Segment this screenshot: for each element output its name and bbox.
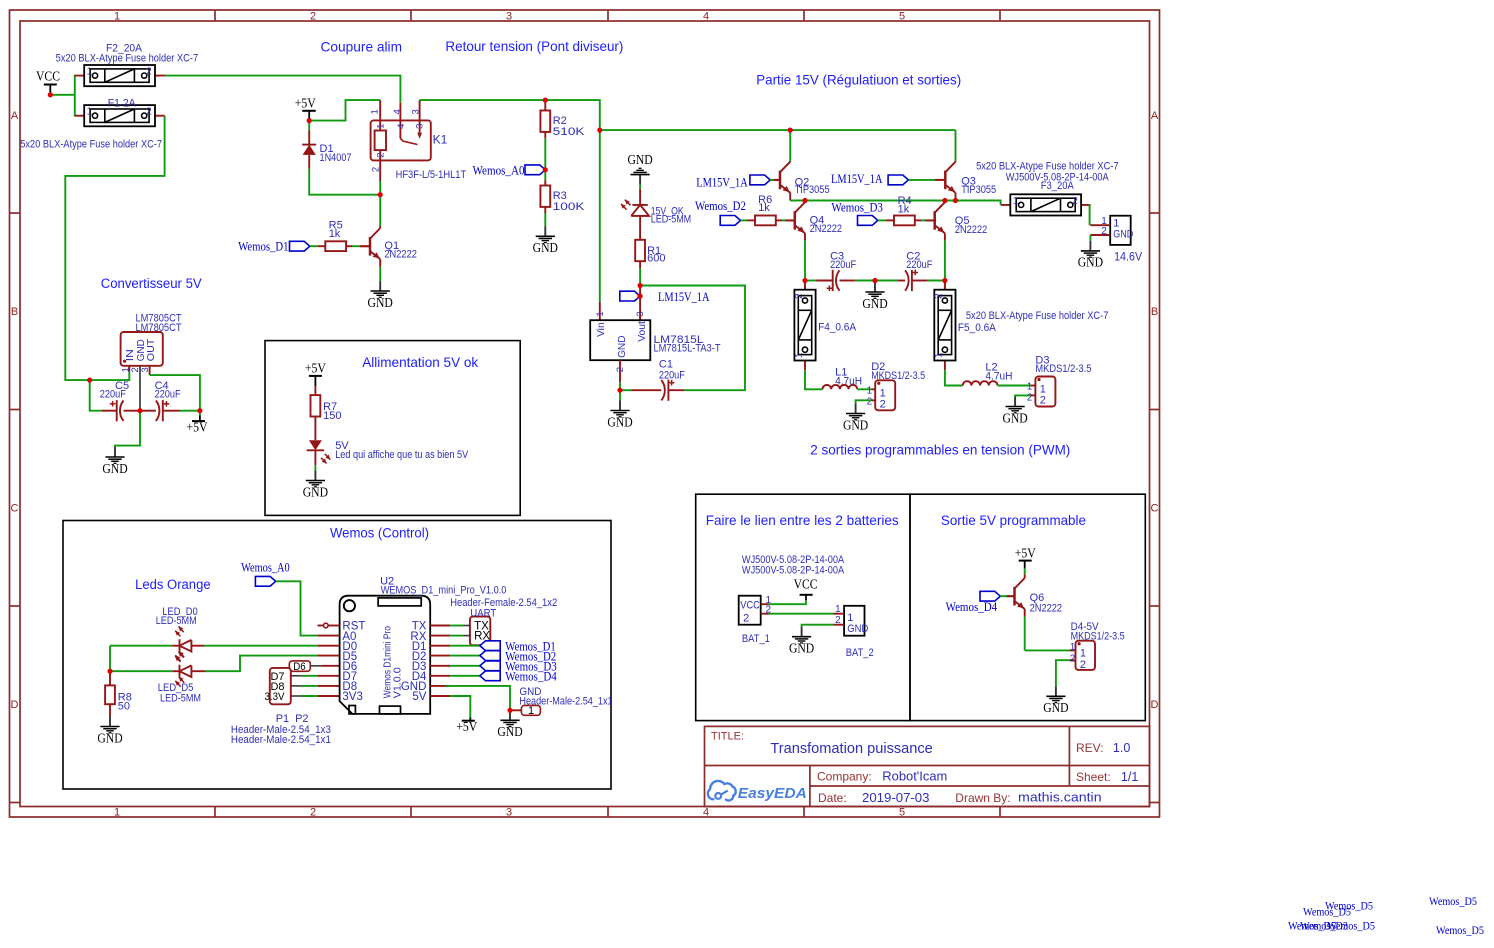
wire R2 to R3	[544, 138, 546, 180]
svg-text:MKDS1/2-3.5: MKDS1/2-3.5	[1071, 631, 1125, 643]
svg-text:Drawn By:: Drawn By:	[955, 791, 1010, 805]
svg-text:1: 1	[370, 109, 381, 114]
svg-text:1/1: 1/1	[1121, 770, 1138, 784]
port Wemos_D3	[831, 200, 886, 225]
power +5V converter output	[187, 411, 208, 435]
power +5V wemos	[456, 718, 477, 735]
svg-text:GND: GND	[533, 240, 558, 255]
module U2 WEMOS D1 mini Pro	[318, 575, 507, 714]
svg-text:5: 5	[899, 806, 905, 818]
svg-text:D: D	[1151, 699, 1159, 711]
svg-text:4: 4	[703, 806, 709, 818]
junction Q2 collector	[788, 128, 793, 133]
transistor Q5 2N2222	[925, 201, 987, 282]
svg-text:1: 1	[87, 107, 93, 118]
power VCC batteries	[794, 577, 818, 600]
header GND Header-Male-2.54_1x1	[510, 686, 613, 717]
comment Retour tension (Pont diviseur)	[445, 39, 623, 54]
fuse F4 0.6A	[794, 280, 857, 370]
sheet border frame	[10, 10, 1160, 818]
svg-text:GND: GND	[303, 484, 328, 499]
svg-text:HF3F-L/5-1HL1T: HF3F-L/5-1HL1T	[396, 169, 467, 181]
capacitor C5 220uF	[100, 380, 140, 421]
svg-text:1: 1	[595, 311, 606, 316]
ground R3	[533, 226, 558, 255]
transistor Q1 2N2222	[361, 226, 417, 281]
section box Faire le lien entre les 2 batteries	[696, 494, 910, 720]
wire D2 pin2 gnd	[856, 400, 872, 403]
svg-text:2: 2	[1070, 654, 1076, 665]
svg-text:2: 2	[310, 10, 316, 22]
svg-text:1: 1	[114, 806, 120, 818]
section box Sortie 5V programmable	[910, 494, 1145, 720]
svg-text:A: A	[1151, 110, 1159, 122]
ground Q1 emitter	[368, 281, 393, 310]
svg-text:Wemos (Control): Wemos (Control)	[330, 525, 429, 540]
port Wemos_D4 out	[480, 670, 557, 684]
svg-text:1: 1	[1080, 647, 1086, 659]
svg-text:F4_0.6A: F4_0.6A	[818, 322, 857, 334]
port Wemos_D1	[238, 239, 318, 253]
svg-text:Wemos_D5: Wemos_D5	[1436, 925, 1484, 937]
svg-text:Faire le lien entre les 2 batt: Faire le lien entre les 2 batteries	[706, 513, 899, 528]
port Wemos_D3 out	[480, 660, 557, 674]
svg-text:GND: GND	[1113, 228, 1133, 240]
svg-text:Header-Male-2.54_1x1: Header-Male-2.54_1x1	[231, 734, 331, 746]
regulator LM7805CT	[121, 313, 182, 411]
svg-text:EasyEDA: EasyEDA	[738, 786, 807, 802]
capacitor C1 220uF	[620, 359, 685, 401]
svg-text:WEMOS_D1_mini_Pro_V1.0.0: WEMOS_D1_mini_Pro_V1.0.0	[381, 584, 507, 596]
svg-text:BAT_1: BAT_1	[742, 633, 770, 645]
resistor R1 600	[635, 240, 665, 283]
svg-text:LM15V_1A: LM15V_1A	[696, 175, 748, 189]
svg-text:2: 2	[1080, 659, 1086, 671]
svg-text:3: 3	[506, 10, 512, 22]
transistor Q6 2N2222	[1005, 568, 1062, 650]
svg-text:GND: GND	[97, 730, 122, 745]
svg-text:Wemos_D4: Wemos_D4	[505, 670, 557, 684]
ground converter	[102, 447, 127, 476]
svg-text:2: 2	[375, 152, 386, 157]
svg-text:2: 2	[310, 806, 316, 818]
svg-text:Header-Female-2.54_1x2: Header-Female-2.54_1x2	[450, 597, 557, 609]
svg-text:+5V: +5V	[305, 361, 326, 376]
junction port tip Vout	[638, 294, 643, 299]
led LED_D0 LED-5MM	[110, 606, 318, 661]
svg-text:+5V: +5V	[295, 96, 316, 111]
ground R8	[97, 717, 122, 746]
wire D1-D4 to ports	[450, 646, 480, 676]
svg-text:F1 2A: F1 2A	[108, 98, 137, 110]
svg-text:1: 1	[1070, 642, 1076, 653]
svg-text:GND: GND	[607, 414, 632, 429]
svg-text:Vin: Vin	[595, 322, 607, 337]
svg-text:4: 4	[392, 109, 403, 114]
ground capacitor mid	[862, 281, 887, 311]
wire 15V rail to Q2 Q3 collectors	[600, 130, 956, 161]
ground LM7815	[607, 390, 632, 429]
svg-text:1.0: 1.0	[1113, 741, 1130, 755]
svg-text:Wemos_D4: Wemos_D4	[946, 600, 998, 614]
inductor L2 4.7uH	[963, 361, 1036, 385]
resistor R8 50	[105, 671, 132, 716]
ground 15V_OK flipped	[627, 152, 652, 185]
wire GND pin	[446, 686, 510, 710]
junction divider tap	[543, 167, 548, 172]
svg-text:Sheet:: Sheet:	[1076, 770, 1111, 784]
svg-text:Wemos_D5: Wemos_D5	[1303, 907, 1351, 919]
svg-text:LED-5MM: LED-5MM	[156, 615, 197, 627]
svg-text:2: 2	[835, 615, 841, 626]
svg-text:WJ500V-5.08-2P-14-00A: WJ500V-5.08-2P-14-00A	[742, 564, 845, 576]
port Wemos_D1 out	[480, 640, 556, 654]
svg-text:4: 4	[703, 10, 709, 22]
junction cap mid gnd	[872, 278, 877, 283]
svg-text:2019-07-03: 2019-07-03	[862, 791, 930, 805]
capacitor C2 220uF	[905, 251, 932, 292]
svg-text:600: 600	[647, 253, 665, 265]
transistor Q3 TIP3055	[936, 161, 996, 200]
header P2 D6	[289, 661, 339, 673]
svg-text:2: 2	[1101, 226, 1107, 237]
svg-text:3.3V: 3.3V	[265, 691, 286, 703]
svg-text:1k: 1k	[329, 228, 341, 240]
svg-text:2: 2	[934, 293, 945, 299]
junction R2 top	[543, 98, 548, 103]
ground led indicator	[303, 471, 328, 500]
svg-text:2: 2	[867, 396, 873, 407]
led 5V indicator	[307, 440, 469, 470]
power +5V sortie	[1015, 545, 1036, 568]
svg-text:2: 2	[880, 398, 886, 410]
svg-text:Wemos_D5: Wemos_D5	[1429, 896, 1477, 908]
wire BAT_2 pin2 gnd	[802, 625, 834, 627]
port LM15V_1A to Q3	[831, 172, 945, 186]
svg-text:REV:: REV:	[1076, 741, 1104, 755]
svg-text:Vout: Vout	[636, 321, 648, 342]
svg-text:5x20 BLX-Atype Fuse holder XC-: 5x20 BLX-Atype Fuse holder XC-7	[20, 138, 162, 150]
wire F4 to L1	[805, 370, 823, 389]
svg-text:TITLE:: TITLE:	[711, 731, 744, 743]
resistor R2 510K	[540, 100, 585, 138]
svg-text:GND: GND	[627, 152, 652, 167]
svg-text:Transfomation puissance: Transfomation puissance	[770, 741, 932, 757]
svg-text:2: 2	[1072, 196, 1078, 207]
junction C2 right	[942, 278, 947, 283]
ground 14.6V connector	[1078, 241, 1103, 270]
svg-text:Leds Orange: Leds Orange	[135, 577, 211, 593]
connector BAT_1	[739, 554, 845, 645]
svg-text:Wemos_D1: Wemos_D1	[238, 239, 288, 253]
power +5V relay section	[295, 96, 316, 121]
svg-text:1: 1	[87, 67, 93, 78]
svg-text:MKDS1/2-3.5: MKDS1/2-3.5	[871, 370, 925, 382]
resistor R6 1k	[747, 194, 795, 226]
svg-text:1: 1	[114, 10, 120, 22]
svg-text:MKDS1/2-3.5: MKDS1/2-3.5	[1035, 363, 1091, 375]
svg-text:GND: GND	[368, 295, 393, 310]
svg-text:BAT_2: BAT_2	[846, 647, 874, 659]
inductor L1 4.7uH	[823, 367, 872, 390]
svg-text:GND: GND	[497, 724, 522, 739]
svg-text:B: B	[11, 306, 18, 318]
svg-text:3: 3	[506, 806, 512, 818]
svg-text:3: 3	[140, 367, 151, 372]
ground D2	[843, 404, 868, 433]
svg-text:220uF: 220uF	[100, 388, 126, 400]
svg-text:1k: 1k	[758, 202, 770, 214]
resistor R5 1k	[318, 219, 370, 251]
wire relay pin3 to divider and regulator	[420, 100, 600, 302]
svg-text:Wemos_D2: Wemos_D2	[695, 199, 746, 213]
svg-text:2: 2	[794, 293, 805, 299]
svg-text:1: 1	[1027, 381, 1033, 392]
fuse F2	[56, 43, 199, 87]
svg-text:Led qui affiche que tu as bien: Led qui affiche que tu as bien 5V	[335, 449, 469, 461]
svg-text:2N2222: 2N2222	[955, 224, 988, 236]
svg-text:D: D	[11, 699, 19, 711]
wire emitter rail to F3	[790, 201, 1000, 205]
logo EasyEDA	[708, 781, 807, 802]
svg-text:GND: GND	[102, 461, 127, 476]
svg-text:B: B	[1151, 306, 1158, 318]
svg-text:5x20 BLX-Atype Fuse holder XC-: 5x20 BLX-Atype Fuse holder XC-7	[56, 53, 199, 65]
svg-text:K1: K1	[433, 133, 448, 147]
svg-text:2 sorties programmables en ten: 2 sorties programmables en tension (PWM)	[810, 443, 1070, 458]
connector D4-5V MKDS1/2-3.5	[1070, 621, 1125, 671]
svg-text:3: 3	[414, 124, 425, 129]
svg-text:2N2222: 2N2222	[384, 249, 417, 261]
power +5V led indicator	[305, 361, 326, 386]
svg-text:1: 1	[794, 352, 805, 358]
svg-text:GND: GND	[789, 641, 814, 656]
section box Allimentation 5V ok	[265, 341, 520, 516]
svg-text:TIP3055: TIP3055	[795, 184, 830, 196]
junction LM7815 gnd	[617, 388, 622, 393]
svg-text:2: 2	[615, 367, 626, 372]
svg-text:1N4007: 1N4007	[320, 152, 352, 164]
junction C3 left	[802, 278, 807, 283]
junction led common	[107, 669, 112, 674]
svg-text:4.7uH: 4.7uH	[835, 376, 862, 388]
wire connector gnd	[1089, 235, 1091, 241]
ground wemos	[497, 710, 522, 739]
svg-text:2N2222: 2N2222	[1030, 603, 1063, 615]
svg-text:C: C	[11, 503, 19, 515]
svg-text:UART: UART	[470, 607, 496, 619]
svg-text:GND: GND	[847, 623, 868, 635]
ground sortie	[1043, 686, 1068, 715]
svg-text:5: 5	[899, 10, 905, 22]
capacitor C4 220uF	[140, 380, 200, 421]
comment Convertisseur 5V	[101, 276, 202, 292]
svg-text:Convertisseur 5V: Convertisseur 5V	[101, 276, 202, 292]
node Wemos_D5 stray labels	[1288, 896, 1484, 937]
port Wemos_D2	[695, 199, 747, 226]
svg-text:3: 3	[410, 109, 421, 114]
svg-text:OUT: OUT	[145, 338, 157, 361]
svg-text:Partie 15V (Régulatiuon et sor: Partie 15V (Régulatiuon et sorties)	[756, 73, 961, 88]
fuse F3 20A	[976, 160, 1119, 215]
connector 14.6V output	[1090, 216, 1142, 264]
led D5 15V_OK LED-5MM	[621, 185, 691, 240]
wire 5V pin to +5V	[450, 696, 470, 718]
junction converter input	[87, 378, 92, 383]
svg-text:Retour tension (Pont diviseur): Retour tension (Pont diviseur)	[445, 39, 623, 54]
port Wemos_A0 divider tap	[473, 164, 546, 178]
svg-text:LM15V_1A: LM15V_1A	[831, 172, 883, 186]
comment Partie 15V (Regulatiuon et sorties)	[756, 73, 961, 88]
wire Q6 emitter to D4-5V	[1025, 649, 1076, 651]
svg-text:F5_0.6A: F5_0.6A	[958, 322, 997, 334]
connector D2 MKDS1/2-3.5	[867, 361, 926, 411]
diode D1 1N4007	[302, 130, 351, 190]
svg-text:GND: GND	[843, 417, 868, 432]
svg-text:1: 1	[835, 604, 841, 615]
svg-text:Allimentation 5V ok: Allimentation 5V ok	[362, 355, 478, 370]
svg-text:VCC: VCC	[36, 69, 60, 84]
wire to C5	[90, 380, 102, 411]
svg-text:GND: GND	[1002, 410, 1027, 425]
svg-text:2: 2	[1027, 392, 1033, 403]
junction Q5 collector	[942, 198, 947, 203]
svg-text:F3_20A: F3_20A	[1041, 180, 1075, 192]
wire F2 output to relay pin4	[164, 76, 400, 103]
svg-text:1: 1	[934, 352, 945, 358]
svg-text:LED-5MM: LED-5MM	[651, 214, 692, 226]
svg-text:Company:: Company:	[817, 769, 872, 783]
svg-text:1: 1	[1013, 196, 1019, 207]
svg-text:Wemos_D3: Wemos_D3	[831, 200, 883, 214]
ground batteries	[789, 627, 814, 656]
svg-text:GND: GND	[862, 296, 887, 311]
junction VCC	[48, 92, 53, 97]
junction +5V node	[197, 408, 202, 413]
svg-text:+5V: +5V	[1015, 545, 1036, 560]
svg-text:100K: 100K	[553, 201, 586, 213]
svg-text:3V3: 3V3	[342, 691, 362, 703]
resistor R4 1k	[886, 195, 935, 225]
wire F3 to output connector	[1090, 205, 1091, 225]
svg-text:220uF: 220uF	[906, 259, 932, 271]
led LED_D5 LED-5MM	[110, 652, 318, 705]
svg-text:220uF: 220uF	[155, 388, 181, 400]
junction +5V D1	[307, 118, 312, 123]
svg-text:LM7815L-TA3-T: LM7815L-TA3-T	[654, 343, 721, 355]
wire Vout loop to C1	[640, 286, 745, 391]
resistor R7 150	[311, 386, 342, 440]
wire F1 output to LM7805 IN	[65, 116, 164, 380]
svg-text:2: 2	[146, 107, 152, 118]
fuse F5 0.6A	[934, 280, 1109, 370]
connector BAT_2	[833, 604, 874, 659]
svg-text:TIP3055: TIP3055	[961, 184, 996, 196]
svg-text:1k: 1k	[898, 204, 910, 216]
svg-text:5V: 5V	[412, 691, 426, 703]
transistor Q4 2N2222	[785, 201, 842, 282]
svg-text:Header-Male-2.54_1x1: Header-Male-2.54_1x1	[519, 695, 612, 707]
wire D4-5V pin2 gnd	[1056, 660, 1070, 686]
svg-text:2: 2	[371, 167, 382, 172]
svg-text:Robot'Icam: Robot'Icam	[882, 769, 947, 783]
svg-text:mathis.cantin: mathis.cantin	[1018, 791, 1102, 805]
wire D3 pin2 gnd	[1015, 395, 1031, 396]
relay K1 HF3F-L/5-1HL1T	[370, 100, 467, 181]
wire VCC to fuses	[50, 76, 75, 116]
svg-text:220uF: 220uF	[830, 259, 856, 271]
svg-text:Wemos_D5: Wemos_D5	[1327, 921, 1375, 933]
wire BAT_1 pin1 to VCC	[769, 600, 806, 604]
ground D3	[1002, 397, 1027, 426]
junction LM15V_1A node	[638, 283, 643, 288]
comment 2 sorties programmables en tension (PWM)	[810, 443, 1070, 458]
wire cap node to gnd	[115, 411, 140, 447]
fuse F1	[20, 98, 164, 151]
wire F5 to L2	[945, 370, 963, 385]
junction Q3 emitter	[953, 198, 958, 203]
wire relay node to Q1 collector	[379, 195, 381, 226]
wire A0	[276, 581, 318, 635]
node VCC supply	[36, 69, 60, 95]
svg-text:2: 2	[1040, 394, 1046, 406]
resistor R3 100K	[540, 180, 585, 226]
svg-text:+5V: +5V	[456, 719, 477, 734]
svg-text:14.6V: 14.6V	[1114, 249, 1142, 263]
header P1 D7 D8 3.3V	[231, 668, 340, 746]
svg-text:LED-5MM: LED-5MM	[160, 692, 201, 704]
svg-text:2N2222: 2N2222	[810, 223, 843, 235]
comment Leds Orange	[135, 577, 211, 593]
svg-text:220uF: 220uF	[659, 370, 685, 382]
svg-text:V1.0.0: V1.0.0	[391, 667, 403, 698]
capacitor C3 220uF	[827, 251, 857, 292]
wire led common	[109, 646, 111, 672]
wire +5V to relay coil pin1	[309, 100, 380, 121]
port Wemos_D2 out	[480, 649, 556, 663]
junction cap gnd node	[137, 408, 142, 413]
svg-text:2: 2	[146, 67, 152, 78]
transistor Q2 TIP3055	[771, 161, 830, 200]
svg-text:VCC: VCC	[740, 600, 760, 612]
regulator U LM7815L	[590, 286, 721, 391]
connector D3 MKDS1/2-3.5	[1027, 355, 1092, 407]
svg-text:C: C	[1151, 503, 1159, 515]
junction relay pin2 - Q1 collector	[378, 192, 383, 197]
svg-text:1: 1	[867, 385, 873, 396]
svg-text:LM7805CT: LM7805CT	[136, 322, 182, 334]
svg-text:Wemos_A0: Wemos_A0	[473, 164, 525, 178]
header UART Header-Female-2.54_1x2	[450, 597, 557, 645]
svg-text:GND: GND	[616, 335, 628, 358]
svg-text:3: 3	[635, 311, 646, 316]
section box Wemos (Control)	[63, 521, 611, 790]
svg-text:4.7uH: 4.7uH	[985, 370, 1012, 382]
svg-text:1: 1	[375, 124, 386, 129]
svg-text:LM15V_1A: LM15V_1A	[658, 290, 710, 304]
svg-text:150: 150	[323, 410, 341, 422]
junction Q4 collector	[802, 198, 807, 203]
port LM15V_1A to Q2	[696, 175, 780, 189]
svg-text:50: 50	[118, 701, 130, 713]
svg-text:5x20 BLX-Atype Fuse holder XC-: 5x20 BLX-Atype Fuse holder XC-7	[966, 310, 1109, 322]
comment Coupure alim	[321, 39, 403, 54]
svg-text:D6: D6	[293, 661, 306, 673]
svg-text:Wemos_A0: Wemos_A0	[241, 560, 290, 574]
wire LM7805 out to +5V	[150, 375, 200, 411]
svg-text:Coupure alim: Coupure alim	[321, 39, 403, 54]
svg-text:4: 4	[396, 124, 407, 129]
